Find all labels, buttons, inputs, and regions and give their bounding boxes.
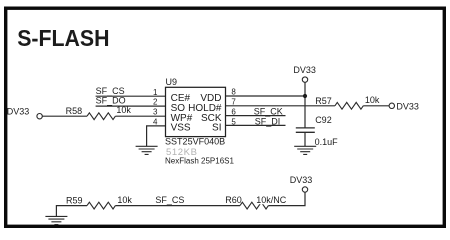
svg-text:SF_CS: SF_CS (96, 86, 125, 96)
wire R58 to pin 3 (115, 115, 165, 117)
node DV33 (right terminal) (389, 102, 419, 112)
svg-text:VSS: VSS (171, 123, 191, 134)
wire SF_DO to pin 2 (96, 105, 166, 107)
wire DV33 to R58 (42, 115, 87, 117)
svg-text:NexFlash 25P16S1: NexFlash 25P16S1 (165, 157, 234, 166)
wire R57 to DV33 (363, 105, 389, 107)
svg-text:10k: 10k (365, 95, 380, 105)
pin number 1 (153, 88, 158, 97)
wire R60 to DV33 (268, 192, 305, 205)
value label 512KB (166, 147, 198, 158)
svg-text:R59: R59 (66, 196, 83, 206)
capacitor C92 (296, 115, 338, 147)
wire R59 to R60 (115, 205, 240, 207)
svg-text:3: 3 (153, 108, 158, 117)
svg-text:R60: R60 (225, 195, 242, 205)
svg-text:7: 7 (231, 98, 236, 107)
value label SST25VF040B (165, 137, 225, 147)
wire ground to R59 (56, 206, 87, 217)
ground (at VSS pin 4) (136, 146, 158, 154)
node SF_CS (bottom net label) (155, 195, 184, 205)
pin number 8 (231, 88, 236, 97)
node DV33 (bottom terminal) (290, 175, 313, 192)
resistor R60 (225, 195, 286, 209)
pin number 3 (153, 108, 158, 117)
wire C92 to ground (304, 132, 306, 146)
svg-text:SST25VF040B: SST25VF040B (165, 137, 225, 147)
ground (bottom left) (45, 216, 67, 224)
wire pin 7 to R57 (226, 105, 335, 107)
svg-text:10k: 10k (116, 105, 131, 115)
svg-text:C92: C92 (315, 115, 332, 125)
node SF_CS (pin1 net label) (96, 86, 125, 96)
svg-text:10k: 10k (117, 195, 132, 205)
ground (below C92) (294, 146, 316, 154)
wire pin 8 to DV33 junction (226, 95, 306, 97)
svg-text:10k/NC: 10k/NC (256, 195, 287, 205)
svg-text:DV33: DV33 (293, 65, 316, 75)
svg-text:R58: R58 (66, 106, 83, 116)
node SF_DI (pin5 net label) (255, 116, 281, 126)
chip U9 (166, 77, 226, 137)
svg-text:2: 2 (153, 98, 158, 107)
pin number 2 (153, 98, 158, 107)
svg-text:8: 8 (231, 88, 236, 97)
svg-text:0.1uF: 0.1uF (315, 137, 339, 147)
resistor R57 (315, 95, 380, 109)
wire VSS pin 4 (147, 126, 166, 146)
wire SF_CS to pin 1 (96, 95, 166, 97)
node SF_CK (pin6 net label) (254, 107, 283, 117)
svg-text:DV33: DV33 (290, 175, 313, 185)
junction dot (303, 94, 307, 98)
pin number 6 (231, 107, 236, 116)
pin number 5 (231, 117, 236, 126)
resistor R58 (66, 105, 132, 120)
svg-text:DV33: DV33 (396, 102, 419, 112)
wire pin 6 SF_CK (226, 115, 286, 117)
pin number 4 (153, 118, 158, 127)
node SF_DO (pin2 net label) (96, 96, 126, 106)
svg-text:R57: R57 (315, 96, 332, 106)
value label NexFlash 25P16S1 (165, 157, 234, 166)
title S-FLASH (17, 25, 109, 51)
svg-text:SF_CS: SF_CS (155, 195, 184, 205)
pin number 7 (231, 98, 236, 107)
node DV33 (top right terminal) (293, 65, 316, 82)
svg-text:SI: SI (212, 123, 221, 134)
svg-text:4: 4 (153, 118, 158, 127)
resistor R59 (66, 195, 132, 209)
svg-text:U9: U9 (166, 77, 178, 87)
svg-text:S-FLASH: S-FLASH (17, 25, 109, 51)
wire DV33 down through junction to C92 (304, 82, 306, 128)
wire pin 5 SF_DI (226, 124, 286, 126)
svg-text:DV33: DV33 (7, 107, 30, 117)
node DV33 (left terminal) (7, 107, 43, 119)
svg-text:1: 1 (153, 88, 158, 97)
